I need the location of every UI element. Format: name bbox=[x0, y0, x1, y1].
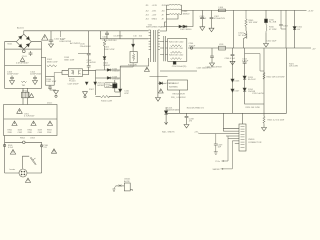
resistor R320 on line bbox=[263, 73, 265, 80]
wire diode row drop bbox=[165, 22, 180, 27]
svg-text:680K 1/2W: 680K 1/2W bbox=[47, 62, 57, 64]
svg-text:+5V: +5V bbox=[194, 132, 198, 134]
wire D201 bbox=[158, 82, 166, 84]
wire CN301 top bbox=[242, 113, 244, 124]
wire R106 left bbox=[96, 96, 101, 98]
svg-text:4.7uF: 4.7uF bbox=[8, 147, 14, 149]
capacitor C314 column bbox=[243, 48, 247, 76]
capacitor C101 with ground at rail bbox=[49, 31, 53, 44]
wire row3 bbox=[166, 13, 169, 15]
connector CN301 bbox=[239, 124, 246, 151]
wire bulk rail right of bridge bbox=[41, 58, 45, 77]
wire riser x120 bbox=[119, 31, 121, 39]
svg-text:220K: 220K bbox=[28, 132, 33, 134]
wire row2 to bus2 bbox=[180, 9, 181, 11]
svg-text:KA2_ GNDTS: KA2_ GNDTS bbox=[162, 131, 175, 134]
wire LF101 to bottom box left bbox=[22, 88, 24, 104]
svg-text:Direct: Direct bbox=[47, 102, 53, 105]
inductor L301 bbox=[169, 3, 180, 6]
varistor Z101 circle bbox=[22, 50, 25, 53]
wire degauss divider bbox=[4, 118, 57, 120]
svg-text:R325 2.2 1/4 1/2W: R325 2.2 1/4 1/2W bbox=[268, 120, 285, 122]
wire snubber drop bbox=[132, 39, 134, 52]
diode D4 of bridge bbox=[26, 44, 29, 47]
svg-text:C206 0.1uF: C206 0.1uF bbox=[225, 58, 236, 60]
wire row3 to bus2 bbox=[180, 13, 181, 15]
svg-text:2200P/250V: 2200P/250V bbox=[7, 74, 19, 76]
resistor box R104 bbox=[46, 76, 55, 85]
warning flag F101 bbox=[42, 35, 48, 41]
transformer T101 secondary winding bar bbox=[157, 30, 159, 62]
wire regulator down bbox=[179, 90, 181, 113]
node bridge bottom to LF bbox=[23, 48, 25, 51]
svg-text:+3.3V: +3.3V bbox=[308, 10, 314, 12]
optocoupler IC101 box bbox=[68, 69, 82, 77]
wire KA431 cathode up bbox=[165, 107, 167, 111]
wire SMOFF bbox=[221, 141, 233, 170]
capacitor C209 bbox=[214, 134, 218, 152]
wire LF101 to bottom box right bbox=[27, 88, 29, 104]
wire opto to R104 bbox=[54, 73, 62, 77]
wire transformer pin to drain bbox=[120, 58, 148, 70]
svg-text:220uF/400V: 220uF/400V bbox=[80, 46, 92, 48]
capacitor C313 bbox=[279, 10, 286, 29]
wire mosfet source join bbox=[115, 91, 120, 93]
diode D302 bbox=[183, 25, 186, 28]
capacitor C205 bbox=[210, 48, 214, 63]
ground C208 bbox=[184, 125, 189, 129]
opto LED symbol bbox=[72, 71, 74, 75]
wire rail to R325 bbox=[263, 113, 265, 127]
wire R101 down bbox=[104, 48, 106, 56]
svg-text:KA78M05: KA78M05 bbox=[169, 86, 179, 89]
wire riser x100 bbox=[100, 31, 102, 39]
wire D102 bbox=[96, 69, 121, 71]
inductor L302 bbox=[169, 8, 180, 11]
svg-text:AC/IN: AC/IN bbox=[124, 180, 130, 183]
diode D103 bbox=[107, 77, 111, 80]
svg-text:C310 10uF: C310 10uF bbox=[267, 41, 278, 43]
svg-text:C203 1000uF/35: C203 1000uF/35 bbox=[197, 68, 213, 70]
mosfet leads bbox=[110, 80, 115, 92]
resistor zigzag row3 bbox=[171, 58, 182, 60]
wire below box loop bbox=[5, 136, 42, 174]
svg-text:D302 SB560: D302 SB560 bbox=[180, 29, 192, 31]
svg-text:4.7uF/250V: 4.7uF/250V bbox=[24, 116, 35, 118]
svg-text:C902: C902 bbox=[18, 132, 23, 134]
capacitor C103 symbol bbox=[10, 76, 14, 81]
wire T102 stub bbox=[60, 31, 62, 37]
mosfet Q101 body bbox=[113, 84, 117, 88]
svg-text:AC101: AC101 bbox=[17, 26, 24, 29]
svg-text:PC123: PC123 bbox=[69, 81, 76, 83]
svg-text:HZ9B2: HZ9B2 bbox=[98, 85, 105, 87]
svg-text:1N5822: 1N5822 bbox=[183, 13, 191, 15]
ground C209 bbox=[214, 152, 218, 154]
svg-text:R204 4K7/SMD 1%: R204 4K7/SMD 1% bbox=[187, 108, 205, 110]
ground mid with circle bbox=[83, 92, 88, 96]
capacitor C105 bbox=[105, 31, 109, 39]
svg-text:10K 1/4W: 10K 1/4W bbox=[249, 22, 258, 24]
connector CN101 box bbox=[124, 183, 130, 191]
svg-text:R326 10K 1/4W: R326 10K 1/4W bbox=[246, 107, 260, 109]
wire P.On bbox=[222, 136, 229, 162]
diode D2 of bridge bbox=[26, 37, 29, 40]
varistor on right leg bbox=[40, 145, 42, 147]
resistor network box J2xx bbox=[168, 39, 187, 62]
transformer T101 primary winding bar bbox=[150, 30, 152, 62]
svg-text:IC202: IC202 bbox=[169, 83, 175, 85]
capacitor C102 bbox=[29, 51, 33, 56]
warning flag R903 bbox=[47, 121, 52, 125]
svg-text:/1C 10uF: /1C 10uF bbox=[238, 35, 247, 37]
transistor Q310 bbox=[243, 33, 246, 41]
line filter LF101 choke box bbox=[22, 92, 30, 98]
svg-text:470P: 470P bbox=[124, 93, 129, 95]
resistor R309 bbox=[245, 10, 247, 27]
warning flag R901 bbox=[12, 121, 17, 125]
svg-text:100K 1/4W: 100K 1/4W bbox=[46, 81, 56, 83]
earth symbol bbox=[112, 186, 115, 192]
svg-text:1N4148: 1N4148 bbox=[112, 71, 120, 73]
diode D105 bbox=[132, 44, 135, 47]
ground C310 bbox=[264, 44, 269, 48]
wire vertical x286.5 feedback long bbox=[286, 48, 288, 113]
ground below C101 bbox=[49, 44, 54, 48]
capacitor C104 symbol bbox=[33, 76, 37, 81]
fuse on CN101 lead bbox=[119, 185, 122, 187]
svg-text:REGULATOR: REGULATOR bbox=[173, 93, 186, 96]
bridge rectifier BD101 bbox=[16, 34, 31, 49]
svg-text:SWITCHING TRANS: SWITCHING TRANS bbox=[146, 26, 165, 29]
diode D311 bbox=[293, 27, 296, 30]
wire long vertical x286 bbox=[285, 10, 287, 48]
resistor TH101 zigzag bbox=[22, 81, 27, 83]
wire bus stubs to box bbox=[165, 42, 167, 55]
svg-text:SMOFF: SMOFF bbox=[213, 169, 221, 171]
wire bridge right lead bbox=[31, 42, 41, 49]
svg-text:R20_ 0.1uF/50V: R20_ 0.1uF/50V bbox=[171, 97, 186, 99]
svg-text:0.47uF: 0.47uF bbox=[242, 61, 249, 63]
svg-text:C204 100uF(35): C204 100uF(35) bbox=[172, 66, 187, 68]
svg-text:+3.3V: +3.3V bbox=[152, 5, 158, 7]
warning flag below snubber bbox=[144, 67, 149, 71]
inductor R310 vertical bbox=[265, 23, 268, 33]
svg-text:10K 1/4W: 10K 1/4W bbox=[289, 66, 298, 68]
ground below R104 bbox=[54, 91, 59, 95]
warning flag bottom right bbox=[51, 149, 56, 153]
svg-text:CONNECTOR: CONNECTOR bbox=[248, 142, 262, 144]
capacitor C307 bbox=[210, 10, 214, 28]
svg-text:+12V: +12V bbox=[152, 15, 157, 17]
wire EMI box internal divider bbox=[5, 65, 42, 67]
diode D206 bbox=[231, 79, 234, 82]
svg-text:C109 4700P: C109 4700P bbox=[68, 83, 80, 85]
wire D313 to D314 bbox=[244, 79, 246, 88]
svg-text:47 1/2W: 47 1/2W bbox=[269, 29, 277, 31]
svg-text:1N4148: 1N4148 bbox=[112, 79, 120, 81]
wire C314 branch bbox=[245, 54, 264, 71]
wire bus2 vertical bbox=[181, 5, 183, 14]
svg-text:KA431/KIA431: KA431/KIA431 bbox=[167, 109, 181, 112]
connector pins left bbox=[200, 129, 239, 144]
svg-text:4.7uF/50V: 4.7uF/50V bbox=[87, 62, 97, 64]
svg-text:1N4007: 1N4007 bbox=[103, 65, 111, 67]
svg-text:GND1: GND1 bbox=[152, 19, 158, 21]
EMI filter box bbox=[5, 49, 42, 88]
wire secondary return bbox=[150, 75, 168, 77]
inductor L304 box bbox=[219, 9, 226, 12]
ground for C104 bbox=[33, 81, 38, 85]
diode D204 bbox=[173, 62, 176, 65]
wire R310 down bbox=[265, 33, 267, 44]
snubber box R100 bbox=[130, 52, 137, 63]
wire row1 bbox=[166, 4, 169, 6]
svg-text:680K 1/2W: 680K 1/2W bbox=[64, 59, 74, 61]
svg-text:2200P/250V: 2200P/250V bbox=[30, 74, 42, 76]
feedback rail bbox=[166, 112, 286, 114]
capacitor C206 bbox=[231, 48, 235, 56]
wire R309 to Q310 bbox=[245, 27, 248, 35]
wire secondary bus to transformer bbox=[160, 22, 166, 31]
wire node vertical x95.5 bbox=[95, 70, 97, 95]
wire main output bbox=[182, 9, 307, 11]
transformer T101 core bbox=[153, 30, 155, 62]
degauss box bbox=[4, 105, 57, 136]
wire bottom secondary bbox=[160, 70, 197, 72]
wire opto left pins bbox=[62, 70, 68, 74]
wire vertical x232.5 feedback bbox=[232, 56, 234, 114]
warning flag C901 bbox=[17, 109, 23, 114]
thermistor THR901 bbox=[19, 169, 27, 177]
wire CN101 lead bbox=[116, 185, 125, 187]
diode D310 bbox=[265, 19, 268, 23]
node circle on degauss wire bbox=[23, 141, 26, 144]
wire D101 down bbox=[104, 60, 106, 71]
wire D311 vertical bbox=[294, 10, 296, 48]
wire top rail primary bbox=[24, 31, 149, 34]
diode D1 of bridge bbox=[19, 36, 22, 39]
svg-text:10R: 10R bbox=[106, 86, 110, 88]
wire vertical x264 bbox=[263, 48, 265, 113]
svg-text:CN301: CN301 bbox=[248, 139, 255, 141]
wire snubber bottom to drain bbox=[120, 63, 133, 67]
resistor zigzag row2 bbox=[171, 51, 182, 53]
resistor zigzag row1 bbox=[171, 45, 182, 47]
svg-text:220K: 220K bbox=[8, 132, 13, 134]
svg-text:220K: 220K bbox=[47, 132, 52, 134]
wire below transformer vertical bbox=[157, 62, 159, 98]
wire drain line x120.2 bbox=[109, 70, 121, 97]
inductor L303 bbox=[169, 13, 180, 16]
svg-text:0.1uF/630: 0.1uF/630 bbox=[114, 36, 124, 38]
ground R325 bbox=[262, 128, 267, 132]
svg-text:heater: heater bbox=[10, 168, 16, 171]
wire Q310 down bbox=[242, 41, 244, 48]
wire diode row up to main bbox=[187, 10, 193, 26]
second rail under top bbox=[100, 38, 149, 40]
wire switch arm bbox=[23, 156, 30, 169]
zener ZD101 bbox=[94, 82, 97, 85]
diode D207 bbox=[231, 89, 234, 92]
wire bridge left lead bbox=[5, 42, 17, 49]
diode D101 bbox=[103, 57, 106, 60]
wire stub y53.5 bbox=[78, 53, 87, 55]
diode D314 bbox=[243, 88, 246, 91]
wire +5V rail bbox=[188, 47, 311, 49]
shunt reference IC201 KA431 bbox=[164, 111, 167, 114]
regulator box IC202 bbox=[168, 80, 188, 90]
svg-text:1000uF: 1000uF bbox=[200, 18, 208, 20]
diode D3 of bridge bbox=[19, 44, 22, 47]
wire row2 bbox=[166, 9, 169, 11]
svg-text:C903: C903 bbox=[38, 132, 43, 134]
ground C205 bbox=[210, 63, 215, 67]
warning flag near C102 bbox=[20, 58, 24, 62]
svg-text:4700uF/10V: 4700uF/10V bbox=[214, 18, 226, 20]
capacitor C305 bbox=[200, 10, 204, 26]
warning flag below transformer bbox=[158, 89, 163, 93]
wire opto right pins bbox=[83, 70, 96, 74]
svg-text:R202 10K C241: R202 10K C241 bbox=[169, 48, 184, 50]
resistor R101 vertical bbox=[103, 39, 106, 48]
diode D102 bbox=[107, 69, 111, 72]
ground for C103 bbox=[10, 81, 15, 85]
wire row1 to bus2 bbox=[180, 4, 181, 6]
resistor R102 zigzag bbox=[47, 65, 57, 67]
switch SW901 lever bbox=[30, 157, 36, 165]
svg-text:0.47uF/400V: 0.47uF/400V bbox=[16, 63, 29, 65]
resistor R106 zigzag bbox=[100, 95, 110, 97]
wire R104 down bbox=[48, 85, 56, 90]
warning flag R902 bbox=[31, 121, 36, 125]
svg-text:R320 10R 1/4 R/2W: R320 10R 1/4 R/2W bbox=[267, 77, 285, 79]
wire KA431 anode down arrow bbox=[165, 114, 168, 124]
wire secondary bus vertical bbox=[165, 5, 167, 22]
wire D103 bbox=[96, 77, 121, 79]
svg-text:100K 1/2W: 100K 1/2W bbox=[104, 49, 114, 51]
wire row4 bbox=[166, 14, 178, 19]
node circle on +5 rail bbox=[190, 47, 192, 49]
wire CN101 right stub bbox=[130, 189, 132, 191]
wire pin bus vertical bbox=[222, 113, 224, 131]
label R105 box bbox=[105, 83, 117, 88]
warning flag below thermistor bbox=[25, 178, 30, 182]
resistor R325 bbox=[263, 117, 265, 125]
ground C206 bbox=[230, 61, 235, 65]
diode D201 bbox=[160, 82, 163, 85]
svg-text:C315 1uF/50: C315 1uF/50 bbox=[252, 93, 264, 95]
svg-text:R201 10K C240: R201 10K C240 bbox=[169, 42, 184, 44]
ground below transformer bbox=[156, 98, 161, 102]
svg-text:R106 0.22R: R106 0.22R bbox=[101, 100, 113, 102]
wire transformer pin bus bbox=[164, 36, 166, 61]
inductor L201 box on rail bbox=[219, 46, 226, 50]
svg-text:RL_30B: RL_30B bbox=[269, 22, 277, 24]
wire D310 top bbox=[265, 10, 267, 19]
node circle below R104 ground bbox=[55, 95, 57, 97]
zener D106 bbox=[85, 82, 88, 85]
warning flag bottom left bbox=[10, 150, 15, 155]
warning flag near LF101 bbox=[29, 94, 33, 98]
diode D313 bbox=[243, 76, 246, 79]
diode D301 bbox=[179, 25, 182, 28]
fuse F901 on left leg bbox=[3, 144, 5, 146]
wire bulk cap C106 bbox=[87, 31, 91, 75]
resistor inside snubber bbox=[132, 53, 134, 62]
svg-text:BL41-02: BL41-02 bbox=[248, 79, 256, 81]
svg-text:R203 10K C242: R203 10K C242 bbox=[169, 55, 184, 57]
wire transformer pins to bus bbox=[160, 42, 164, 55]
capacitor C208 bbox=[185, 113, 189, 124]
wire D314 down bbox=[245, 91, 264, 104]
ground C307 bbox=[209, 28, 214, 32]
diode D104 bbox=[119, 89, 122, 92]
opto transistor symbol bbox=[79, 70, 81, 75]
ground C305 bbox=[200, 27, 205, 31]
wire vertical x233.5 bbox=[233, 10, 235, 48]
